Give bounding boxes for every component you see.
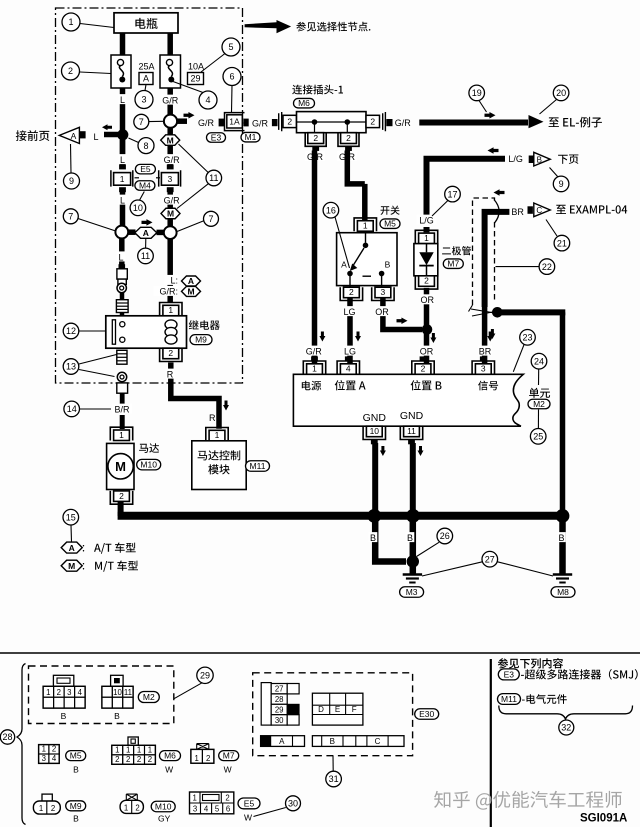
svg-text:29: 29 xyxy=(200,671,210,681)
svg-text:1: 1 xyxy=(194,754,198,763)
E30 side cells xyxy=(287,684,299,694)
svg-text:M: M xyxy=(167,209,174,219)
node 12 callout xyxy=(63,323,79,339)
note text 电气元件 xyxy=(522,694,567,704)
svg-text:E3: E3 xyxy=(504,669,515,679)
label B/R xyxy=(112,404,132,414)
svg-text:2: 2 xyxy=(168,348,173,358)
label 至 EXAMPL-04 xyxy=(556,205,627,214)
wire battery to fuse 2 xyxy=(167,30,173,56)
dashed option enclosure xyxy=(473,198,495,305)
switch contact A xyxy=(347,271,353,277)
wire G/R junction to relay pin1 xyxy=(167,239,173,302)
off-page triangle B xyxy=(529,156,534,164)
label L xyxy=(118,94,127,104)
node 9 callout xyxy=(64,173,80,189)
svg-text:27: 27 xyxy=(485,554,495,564)
relay coil xyxy=(165,320,177,329)
svg-text:8: 8 xyxy=(143,141,148,151)
svg-text:R: R xyxy=(167,370,174,380)
svg-text:2: 2 xyxy=(370,117,375,127)
wire BR junction to right column xyxy=(500,309,565,315)
svg-text:2: 2 xyxy=(346,133,351,143)
motor pin 1 xyxy=(110,427,132,440)
svg-text:W: W xyxy=(224,765,232,775)
node 13 callout xyxy=(63,359,79,375)
E30 row BC xyxy=(312,736,404,747)
switch box xyxy=(337,233,397,286)
svg-text:M2: M2 xyxy=(533,399,545,409)
svg-text:7: 7 xyxy=(139,117,144,127)
label G/R below M6 left xyxy=(305,151,325,161)
diode pin 2 xyxy=(415,276,437,289)
tab after M6 xyxy=(386,119,392,126)
label M10 oval xyxy=(137,459,161,470)
svg-text:11: 11 xyxy=(124,688,132,697)
wire G/R box3 to junction xyxy=(167,192,173,227)
svg-text:L: L xyxy=(120,155,125,165)
fuse F1 element xyxy=(117,59,123,65)
label 马达控制模块 xyxy=(198,450,241,460)
E30 tall cell xyxy=(261,683,271,726)
svg-text:B: B xyxy=(407,533,413,543)
wire L/G elbow xyxy=(427,159,506,216)
junction dots on bus xyxy=(367,509,381,523)
svg-text:1: 1 xyxy=(424,233,429,243)
svg-text:M10: M10 xyxy=(155,802,172,812)
svg-text:L: L xyxy=(120,95,125,105)
svg-text:4: 4 xyxy=(346,364,351,374)
dashed group box E30 xyxy=(253,673,413,756)
relay pin 1 xyxy=(160,303,182,316)
node 2 callout xyxy=(62,62,80,80)
unit pin 2 xyxy=(420,356,427,361)
svg-text:L: L xyxy=(93,132,98,142)
label L 2nd xyxy=(118,154,127,164)
svg-text:3: 3 xyxy=(168,174,173,184)
svg-text:B: B xyxy=(537,155,542,164)
node 25 callout xyxy=(530,429,546,445)
flow arrow right row1 xyxy=(184,112,195,119)
node 20 callout xyxy=(553,85,569,101)
relay contact bar xyxy=(112,320,115,344)
label 下页 xyxy=(558,155,578,164)
svg-text:L: L xyxy=(120,196,125,206)
svg-text:25A: 25A xyxy=(138,62,154,72)
variant diamond M small xyxy=(182,286,201,296)
svg-text:M2: M2 xyxy=(143,692,155,702)
svg-text:12: 12 xyxy=(66,326,76,336)
diode box xyxy=(414,244,438,276)
svg-text:32: 32 xyxy=(561,723,571,733)
label OR above unit xyxy=(419,346,433,356)
inline connector ring xyxy=(117,283,126,292)
junction ring left row2 xyxy=(115,226,128,239)
svg-text:D: D xyxy=(318,705,324,714)
svg-text:11: 11 xyxy=(209,173,218,183)
unit pin 3 xyxy=(480,356,487,361)
svg-text:16: 16 xyxy=(326,205,336,215)
svg-text:E30: E30 xyxy=(419,709,434,719)
svg-text:23: 23 xyxy=(522,333,532,343)
wire L junction to connector stub xyxy=(119,239,125,266)
fuse F1 box xyxy=(111,55,131,88)
node 15 callout xyxy=(63,509,79,525)
node 3 callout xyxy=(135,91,153,109)
svg-text:L:: L: xyxy=(170,276,178,286)
svg-text:E5: E5 xyxy=(140,164,151,174)
unit pin 1 xyxy=(311,356,318,361)
node 32 callout xyxy=(559,720,574,735)
label M4 oval xyxy=(135,181,155,191)
svg-text:1: 1 xyxy=(168,305,173,315)
label B right xyxy=(557,532,566,542)
svg-text:M6: M6 xyxy=(164,751,176,761)
svg-text:2: 2 xyxy=(119,491,124,501)
label 继电器 xyxy=(189,320,220,330)
wire G/R M6 to switch xyxy=(347,151,365,184)
svg-text:L: L xyxy=(118,252,123,262)
battery 电瓶 xyxy=(114,13,178,33)
E30 row A xyxy=(261,736,305,747)
svg-text:M5: M5 xyxy=(384,219,396,229)
node 30 callout xyxy=(286,796,301,811)
svg-text:LG: LG xyxy=(343,307,355,317)
svg-text:2: 2 xyxy=(57,688,61,697)
wire L dot to box1 xyxy=(120,140,126,168)
relay pin 2 xyxy=(160,348,182,361)
label 信号 xyxy=(478,381,498,391)
label G/R 2nd xyxy=(162,154,182,164)
label L 3rd xyxy=(118,195,127,205)
svg-text:M: M xyxy=(68,561,75,571)
node 7 callout first xyxy=(134,114,149,129)
svg-text:2: 2 xyxy=(421,364,426,374)
flow arrows into unit xyxy=(319,332,325,342)
node 11 callout pair-M xyxy=(206,170,222,186)
label G/R 3rd xyxy=(162,195,182,205)
wire BR elbow xyxy=(485,212,510,307)
label B mid xyxy=(406,532,415,542)
svg-text:G/R:: G/R: xyxy=(159,287,178,297)
svg-text:OR: OR xyxy=(421,295,435,305)
fuse F2 box xyxy=(160,55,181,88)
svg-text:1: 1 xyxy=(39,804,43,813)
node 9b callout xyxy=(553,176,569,192)
label 二极管 xyxy=(442,246,471,255)
svg-text:G/R: G/R xyxy=(162,96,179,106)
node 16 callout xyxy=(323,202,339,218)
connector M6 bottom pin left xyxy=(305,133,326,147)
svg-text:28: 28 xyxy=(275,695,284,704)
svg-text:2: 2 xyxy=(68,66,73,76)
wire stub junction-left to A xyxy=(128,229,135,235)
big arrowhead to EL xyxy=(529,115,544,128)
label E30 oval xyxy=(415,709,439,720)
wire B pin11 down xyxy=(410,443,416,516)
svg-text:5: 5 xyxy=(228,42,233,52)
svg-text:M1: M1 xyxy=(245,132,257,142)
flow arrow down R xyxy=(223,401,229,411)
label 单元 xyxy=(529,388,550,398)
label B left xyxy=(369,532,378,542)
svg-text:M7: M7 xyxy=(223,751,235,761)
svg-text:1: 1 xyxy=(119,430,124,440)
legend diamond A xyxy=(61,542,82,553)
label E5 oval bottom xyxy=(238,798,260,809)
svg-text:24: 24 xyxy=(534,356,544,366)
fusible element below relay xyxy=(117,350,127,364)
svg-text:B: B xyxy=(558,533,564,543)
junction dot BR xyxy=(492,307,503,318)
svg-text:2: 2 xyxy=(206,754,210,763)
note 参见选择性节点 xyxy=(296,22,370,32)
wire OR diode to unit xyxy=(424,288,430,363)
svg-text:G/R: G/R xyxy=(252,118,269,128)
label G/R below M6 right xyxy=(337,151,357,161)
svg-text:B: B xyxy=(61,711,67,721)
junction dot OR xyxy=(422,324,433,335)
svg-text:1: 1 xyxy=(126,746,130,755)
svg-text:M4: M4 xyxy=(139,181,151,191)
watermark xyxy=(434,791,622,810)
svg-text:M: M xyxy=(167,135,174,145)
dashed group box M2 xyxy=(29,666,174,724)
svg-text:C: C xyxy=(375,737,381,746)
flow arrows down B xyxy=(380,446,386,456)
svg-text:2: 2 xyxy=(135,803,139,812)
label 开关 xyxy=(381,206,400,215)
junction dot lower xyxy=(407,555,419,567)
svg-text:1: 1 xyxy=(124,803,128,812)
svg-text:2: 2 xyxy=(424,276,429,286)
svg-text:B: B xyxy=(370,533,376,543)
label M10 oval bottom xyxy=(151,801,175,812)
svg-text:1A: 1A xyxy=(229,116,240,126)
ground bus xyxy=(118,512,566,520)
wire stub below connector xyxy=(120,393,125,404)
label M7 oval xyxy=(443,259,463,269)
brace 28 xyxy=(17,664,26,825)
label M9 oval bottom xyxy=(66,801,86,811)
svg-text:1: 1 xyxy=(363,221,368,231)
unit pin 4 xyxy=(345,356,352,361)
label L 4th xyxy=(117,251,126,261)
fuse number box 29 xyxy=(188,73,204,85)
diode pin 1 xyxy=(415,230,437,243)
svg-text:L/G: L/G xyxy=(508,154,523,164)
label 至 EL-例子 xyxy=(549,117,602,128)
variant diamond M row1 xyxy=(161,135,180,146)
svg-text:7: 7 xyxy=(208,214,213,224)
svg-text:2: 2 xyxy=(313,133,318,143)
svg-text:M11: M11 xyxy=(250,461,266,471)
svg-text:W: W xyxy=(165,765,173,775)
wire L fuse1 down xyxy=(120,88,126,168)
connector M6 bottom pin right xyxy=(338,133,359,147)
node 21 callout xyxy=(554,235,570,251)
label E5 oval xyxy=(135,164,155,174)
wire stub A to junction-right xyxy=(157,230,164,236)
wire B right column xyxy=(560,312,566,516)
node 14 callout xyxy=(64,401,80,417)
svg-text:M9: M9 xyxy=(195,335,207,345)
svg-text:17: 17 xyxy=(447,189,457,199)
svg-text:10: 10 xyxy=(133,203,143,213)
svg-text:2: 2 xyxy=(115,755,119,764)
svg-text:A: A xyxy=(341,260,347,270)
svg-text:10A: 10A xyxy=(188,62,204,72)
wire B mid below bus xyxy=(410,520,417,574)
svg-text:G/R: G/R xyxy=(395,118,412,128)
svg-text:1: 1 xyxy=(42,745,46,754)
motor box xyxy=(107,443,134,489)
svg-text:3: 3 xyxy=(67,688,71,697)
SMJ box 3 xyxy=(167,164,174,169)
svg-text:W: W xyxy=(244,813,252,823)
junction dot on L xyxy=(117,129,128,140)
svg-text:1: 1 xyxy=(193,794,197,803)
svg-text:M: M xyxy=(187,287,194,297)
note SMJ text xyxy=(521,669,638,680)
label R below relay xyxy=(166,369,175,379)
node 8 callout xyxy=(138,138,154,154)
SMJ box 1 with M4 xyxy=(119,164,126,169)
svg-text:9: 9 xyxy=(559,179,564,189)
svg-text:3: 3 xyxy=(481,364,486,374)
wire LG switch to unit xyxy=(347,298,353,363)
svg-text:OR: OR xyxy=(375,307,389,317)
label M6 oval bottom xyxy=(160,751,181,761)
label M5 oval bottom xyxy=(66,751,86,761)
svg-text:A: A xyxy=(143,74,149,84)
svg-text:1: 1 xyxy=(215,430,220,440)
node 29 callout xyxy=(197,667,213,683)
label M7 oval bottom xyxy=(219,751,239,761)
svg-text:B: B xyxy=(73,765,79,775)
svg-text:2: 2 xyxy=(287,117,292,127)
label 位置 B xyxy=(411,380,442,390)
svg-text:1: 1 xyxy=(115,746,119,755)
label M9 oval xyxy=(190,335,212,345)
node 31 callout xyxy=(326,771,342,787)
label G/R xyxy=(160,95,180,105)
node 28 callout xyxy=(0,730,14,744)
wire G/R M6 to unit xyxy=(312,151,318,364)
label G/R above unit xyxy=(304,346,324,356)
svg-text:M8: M8 xyxy=(557,587,569,597)
module pin 1 xyxy=(206,428,228,441)
label M3 oval xyxy=(400,587,424,598)
flow arrow down BR xyxy=(489,329,495,339)
connector view M2 front-A xyxy=(53,675,73,686)
label L: variant xyxy=(164,275,178,285)
switch pin 1 xyxy=(354,218,376,231)
connector view E5 xyxy=(190,792,234,814)
wire BR down to unit xyxy=(482,307,488,363)
svg-text:G/R: G/R xyxy=(198,118,215,128)
svg-text:1: 1 xyxy=(137,746,141,755)
dash-dot harness boundary box (E3/M1) xyxy=(56,8,243,383)
svg-text:5: 5 xyxy=(215,805,220,814)
label M2 oval xyxy=(528,399,550,409)
label LG below switch xyxy=(342,306,356,316)
label 马达 xyxy=(139,443,159,453)
svg-text:M10: M10 xyxy=(140,460,157,470)
svg-text:10: 10 xyxy=(370,426,380,436)
motor control module box xyxy=(192,441,246,490)
switch pin 2 xyxy=(340,287,362,300)
svg-text:B: B xyxy=(114,711,120,721)
connector view M7 xyxy=(197,744,209,750)
flow arrow left LG xyxy=(488,147,499,154)
svg-text:E: E xyxy=(335,705,340,714)
svg-text:1: 1 xyxy=(120,174,125,184)
svg-text:E3: E3 xyxy=(211,133,222,143)
fuse letter box A xyxy=(139,73,153,85)
svg-text:A: A xyxy=(71,131,77,141)
label LG above unit xyxy=(343,346,357,356)
wire stub ring to 1A xyxy=(177,118,187,124)
unit pin 11 xyxy=(400,426,422,439)
wire battery to fuse 1 xyxy=(120,30,126,56)
svg-text:2: 2 xyxy=(349,287,354,297)
svg-text:2: 2 xyxy=(148,755,152,764)
ground symbol M3 xyxy=(403,573,422,575)
note M11 oval xyxy=(498,694,521,705)
wire into relay top xyxy=(120,293,125,300)
svg-text:M11: M11 xyxy=(501,694,517,704)
svg-text:1: 1 xyxy=(46,688,50,697)
svg-text:7: 7 xyxy=(68,212,73,222)
svg-text:2: 2 xyxy=(126,755,130,764)
svg-text:29: 29 xyxy=(275,706,284,715)
svg-text:A: A xyxy=(69,543,75,553)
label 连接插头-1 xyxy=(292,85,343,95)
E30 DEF grid xyxy=(312,693,363,725)
switch pin 3 xyxy=(372,287,394,300)
note 参见下列内容 xyxy=(498,658,563,668)
node 7 callout left xyxy=(63,209,78,224)
node 27 callout xyxy=(482,551,498,567)
svg-text:：: ： xyxy=(81,562,91,573)
label M1 oval xyxy=(241,132,260,142)
svg-text:G/R: G/R xyxy=(164,196,181,206)
wire B pin10 down xyxy=(372,443,378,516)
node 17 callout xyxy=(445,186,461,202)
flow arrow left xyxy=(102,124,112,130)
flow arrow right above A xyxy=(142,219,153,226)
junction ring right row2 xyxy=(164,226,177,239)
svg-text:22: 22 xyxy=(542,262,552,272)
label L/G on wire xyxy=(417,215,437,225)
motor pin 2 xyxy=(110,491,132,504)
node 4 callout xyxy=(199,91,217,109)
connector M6 body xyxy=(297,112,367,133)
svg-text:：: ： xyxy=(81,544,91,555)
wire OR switch elbow xyxy=(383,298,422,329)
separator line xyxy=(0,652,640,654)
flow arrow left BR xyxy=(494,189,505,196)
diode symbol xyxy=(426,244,428,253)
switch contact B xyxy=(379,271,385,277)
wire G/R to EL xyxy=(419,120,528,126)
junction ring G/R row1 xyxy=(164,115,177,128)
svg-text:BR: BR xyxy=(479,347,492,357)
svg-text:R: R xyxy=(209,413,216,423)
svg-text:6: 6 xyxy=(226,805,230,814)
svg-text:C: C xyxy=(536,206,542,215)
